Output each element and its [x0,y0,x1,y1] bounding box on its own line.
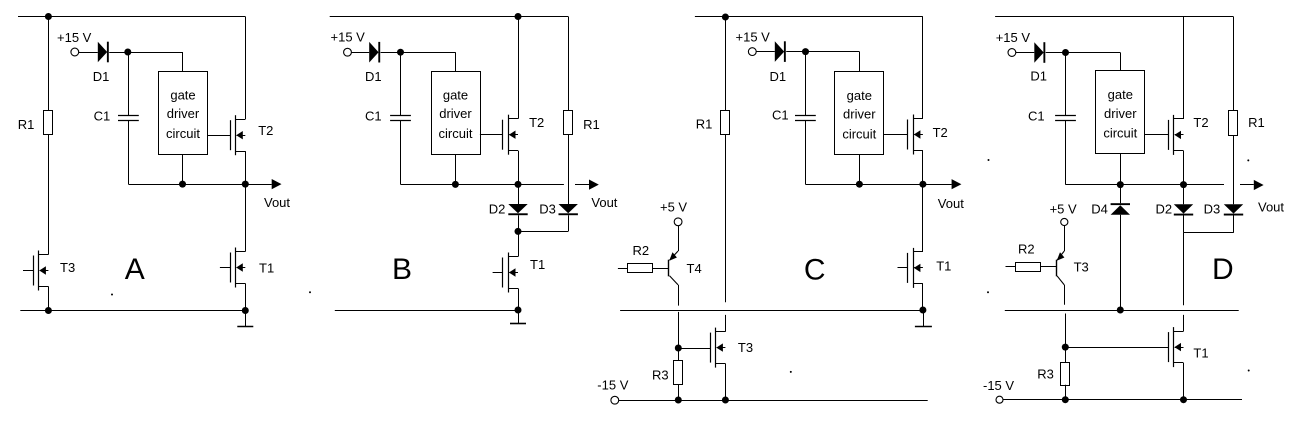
circuit C: bottom driver wire [805,184,923,186]
wire R3 to bottom rail (D) [1065,385,1067,400]
svg-text:+15 V: +15 V [996,30,1031,45]
circuit D: top wire right rail to R1 [1233,17,1235,111]
node D2/D3 join (B) [515,228,522,235]
wire terminal to D1 (D) [1016,52,1035,54]
svg-text:R3: R3 [652,368,669,383]
svg-text:D1: D1 [93,69,110,84]
svg-text:C1: C1 [365,109,382,124]
node R3 / bottom rail (D) [1062,396,1069,403]
wire D2 to junction (B) [518,215,520,231]
node T3 source / bottom rail (C) [722,397,729,404]
svg-text:Vout: Vout [264,195,290,210]
svg-text:driver: driver [439,106,472,121]
wire box to T2 gate (C) [884,134,908,136]
node T3 / bottom rail (A) [45,307,52,314]
node T1 source / middle rail (C) [919,307,926,314]
wire node down to C1 (B) [400,52,402,115]
node T1 source / bottom rail (B) [515,307,522,314]
svg-text:D4: D4 [1091,202,1108,217]
svg-text:+15 V: +15 V [57,30,92,45]
circuit A: node at left rail / top wire [45,13,52,20]
svg-text:C1: C1 [772,108,789,123]
svg-text:+5 V: +5 V [1050,202,1077,217]
svg-text:T1: T1 [1193,346,1208,361]
wire R3 to bottom rail (C) [678,384,680,400]
terminal -15V (C) [611,396,619,404]
box bottom lead (A) [182,154,184,184]
stray speck 1 [111,294,113,296]
svg-text:gate: gate [443,87,468,102]
diode D3 (B) [559,204,578,213]
circuit A: left rail lower segment [48,134,50,254]
node T1 / bottom rail (A) [242,307,249,314]
svg-text:T2: T2 [1193,115,1208,130]
box bottom lead (B) [455,154,457,184]
svg-text:R1: R1 [696,116,713,131]
svg-text:T4: T4 [687,261,702,276]
circuit D: top supply wire [995,16,1233,18]
svg-text:D1: D1 [1030,68,1047,83]
svg-text:driver: driver [843,107,876,122]
resistor R1 (D) [1229,111,1238,136]
node R3 / T1 gate wire (D) [1062,344,1069,351]
svg-text:+15 V: +15 V [736,30,771,45]
wire T3 collector to crossing gap (D) [1064,285,1066,305]
terminal -15V (D) [996,396,1003,403]
wire node down to R3 (C) [678,348,680,360]
wire C1 to driver wire (B) [400,120,402,184]
circuit A: T3 source to bottom rail [48,286,50,310]
capacitor C1 (B) [390,115,411,117]
stray speck 5 [790,371,792,373]
transistor T2 (D) [1173,115,1175,155]
svg-text:T2: T2 [933,125,948,140]
svg-text:T2: T2 [258,123,273,138]
svg-text:gate: gate [170,87,195,102]
transistor T1 (B) [508,253,510,293]
diode D2 (B) [508,204,527,213]
svg-text:D2: D2 [1156,202,1173,217]
output arrow Vout (A) [245,184,271,186]
wire T4 collector resumes to node (C) [678,312,680,348]
circuit B: bottom rail [335,310,518,312]
circuit C: T3 source rail [725,364,727,401]
svg-text:R1: R1 [1248,115,1265,130]
svg-text:D3: D3 [539,201,556,216]
svg-text:T2: T2 [529,115,544,130]
transistor T3 (C) [715,328,717,368]
wire D3 to join (D) [1233,216,1235,233]
box bottom lead (D) [1120,154,1122,185]
diode D1 (B) [369,42,378,63]
circuit B: T1 source rail [518,288,520,310]
svg-text:circuit: circuit [166,126,200,141]
wire node to box top lead (A) [128,52,183,54]
svg-text:R1: R1 [583,117,600,132]
svg-text:C: C [804,254,826,287]
svg-text:T3: T3 [738,340,753,355]
node box lead / driver wire (D) [1117,181,1124,188]
node left rail / top wire (C) [722,14,729,21]
node T2 drain / top wire (B) [515,13,522,20]
circuit C: T2 source rail [922,150,924,184]
svg-text:A: A [125,253,145,286]
circuit D: T2 source rail [1183,151,1185,185]
wire node to box top lead (B) [401,52,456,54]
transistor T1 (A) [235,248,237,288]
svg-text:D: D [1212,253,1234,286]
node T1 source / bottom rail (D) [1180,396,1187,403]
svg-text:T1: T1 [530,257,545,272]
resistor R1 (A) [44,111,53,135]
circuit D: middle output rail [1005,310,1239,312]
terminal +15V (C) [748,48,756,56]
circuit A: T2 drain rail [245,17,247,120]
circuit B: top supply wire [330,16,569,18]
resistor R1 (B) [564,111,573,135]
svg-text:T3: T3 [1074,260,1089,275]
node box lead / driver wire (C) [856,181,863,188]
output arrow Vout (D) [1240,184,1254,186]
svg-text:Vout: Vout [1258,199,1284,214]
svg-text:Vout: Vout [938,196,964,211]
wire resumes to T1 drain (D) [1183,315,1185,331]
circuit B: bottom driver wire [401,184,564,186]
terminal +15V (D) [1008,49,1016,57]
svg-text:T1: T1 [259,261,274,276]
output arrow Vout (B) [575,184,589,186]
wire D1 to node (C) [786,51,805,53]
svg-text:+15 V: +15 V [331,29,366,44]
wire node down to C1 (A) [128,52,130,115]
circuit A: T2 source rail [245,151,247,184]
ground (A) [245,311,247,327]
circuit A: top supply wire [18,16,245,18]
svg-text:C1: C1 [94,109,111,124]
svg-text:driver: driver [167,106,200,121]
node D4 / middle rail (D) [1117,307,1124,314]
wire D1 to node (B) [381,52,401,54]
output arrow Vout (C) [923,184,952,186]
transistor T3 pnp (D) [1056,260,1058,277]
svg-text:-15 V: -15 V [597,377,628,392]
transistor T2 (A) [235,115,237,155]
wire D4 to middle rail (D) [1120,215,1122,310]
resistor R3 (C) [674,361,683,385]
wire R2 to T4 base (C) [653,268,669,270]
ground (C) [923,310,925,326]
wire join down to crossing gap (D) [1183,233,1185,306]
capacitor C1 (C) [795,115,816,117]
wire node to T1 gate (D) [1065,347,1168,349]
circuit C: T2 drain rail [922,17,924,119]
circuit D: bottom supply rail [1003,399,1242,401]
svg-text:+5 V: +5 V [660,200,687,215]
wire box to T2 gate (B) [480,134,503,136]
svg-text:T1: T1 [936,259,951,274]
svg-text:circuit: circuit [1103,126,1137,141]
wire R2 lead (D) [1006,266,1016,268]
wire C1 to driver wire (C) [805,120,807,184]
node after D1 (A) [124,49,131,56]
circuit D: bottom driver wire [1066,184,1225,186]
wire terminal to D1 (A) [79,52,98,54]
svg-text:R2: R2 [633,243,650,258]
wire T4 collector to crossing gap (C) [678,285,680,306]
svg-text:C1: C1 [1028,109,1045,124]
node after D1 (C) [802,48,809,55]
stray speck 6 [1248,370,1250,372]
circuit C: left rail upper segment [725,17,727,110]
circuit B: T2 drain rail [518,17,520,119]
diode D1 (D) [1034,42,1043,63]
svg-text:circuit: circuit [842,126,876,141]
svg-text:R1: R1 [18,117,35,132]
node R3 / bottom rail (C) [675,397,682,404]
wire T3 collector resumes to node (D) [1065,314,1067,348]
capacitor C1 (D) [1055,115,1076,117]
op-amp box: gate driver circuit U1 (D) [1096,71,1145,154]
wire C1 to driver wire (D) [1065,120,1067,184]
diode D1 (A) [98,42,107,63]
stray speck 2 [309,291,311,293]
diode D2 (D) [1174,204,1193,213]
svg-text:D3: D3 [1204,202,1221,217]
circuit A: bottom rail [20,310,245,312]
svg-text:gate: gate [1108,87,1133,102]
transistor T1 (C) [913,248,915,288]
capacitor C1 (A) [118,115,139,117]
diode D4 (D) [1111,203,1130,205]
svg-text:circuit: circuit [439,126,473,141]
wire T2 source node to D2 (B) [518,184,520,204]
wire D3 to junction (B) [568,215,570,231]
svg-text:-15 V: -15 V [983,378,1014,393]
wire R2 to T3 base (D) [1040,266,1056,268]
op-amp box: gate driver circuit U1 (C) [835,72,884,155]
circuit C: middle output rail [620,310,923,312]
wire R2 lead (C) [618,268,628,270]
terminal +15V (A) [71,48,79,56]
wire D1 to node (A) [109,52,128,54]
circuit B: top wire right rail to R1 [568,17,570,111]
wire D2 to join (D) [1183,216,1185,233]
node T2 source / driver wire (A) [242,181,249,188]
circuit B: T2 source rail [518,151,520,185]
svg-text:R3: R3 [1037,367,1054,382]
transistor T3 (A) [38,251,40,291]
svg-text:D1: D1 [770,69,787,84]
resistor R1 (C) [721,111,730,135]
svg-text:T3: T3 [60,260,75,275]
wire R1 to D3 (B) [568,134,570,204]
terminal +15V (B) [344,48,352,56]
circuit C: left rail to crossing gap [725,134,727,302]
svg-text:Vout: Vout [591,195,617,210]
node T2 source / driver wire (D) [1180,181,1187,188]
wire node to box top lead (C) [806,51,860,53]
wire output node down to T1 (C) [922,184,924,252]
resistor R2 (C) [628,264,653,273]
circuit A: T1 source rail [245,283,247,310]
circuit C: left rail resumes to T3 drain [725,315,727,332]
wire node down to C1 (D) [1065,53,1067,116]
transistor T4 pnp (C) [668,260,670,277]
wire R1 to D3 (D) [1233,136,1235,205]
ground (B) [518,310,520,324]
node after D1 (B) [397,49,404,56]
op-amp box: gate driver circuit U1 (B) [432,72,481,155]
transistor T2 (B) [508,115,510,155]
svg-text:R2: R2 [1018,242,1035,257]
wire node down to R3 (D) [1065,347,1067,362]
wire output node down to T1 (A) [245,184,247,252]
node after D1 (D) [1062,49,1069,56]
circuit C: bottom supply rail [619,400,928,402]
svg-text:driver: driver [1104,106,1137,121]
diode D3 (D) [1224,204,1243,213]
node T2 source / driver wire (C) [919,181,926,188]
node R3 / T3 gate (C) [675,345,682,352]
diode D1 (C) [775,41,784,62]
node box lead / driver wire (B) [452,181,459,188]
circuit C: top supply wire [695,16,923,18]
svg-text:B: B [392,253,412,286]
transistor T1 (D) [1173,327,1175,367]
circuit A: left rail upper segment [48,17,50,111]
wire box to T2 gate (A) [208,135,231,137]
terminal +5V (C) [674,218,682,226]
stray speck 3 [987,291,989,293]
svg-text:gate: gate [847,88,872,103]
box bottom lead (C) [859,155,861,185]
svg-text:D2: D2 [489,201,506,216]
wire terminal to D1 (B) [351,52,369,54]
resistor R3 (D) [1061,363,1070,386]
wire terminal to D1 (C) [756,51,775,53]
wire junction down to T1 (B) [518,231,520,256]
circuit C: T1 source rail [922,284,924,310]
wire node down to C1 (C) [805,52,807,116]
circuit D: T1 source rail [1183,363,1185,400]
wire node to T3 gate (C) [678,348,710,350]
circuit D: T2 drain rail [1183,17,1185,119]
circuit A: bottom driver wire [128,184,245,186]
terminal +5V (D) [1061,218,1068,225]
op-amp box: gate driver circuit U1 (A) [159,72,208,155]
resistor R2 (D) [1016,263,1041,272]
wire box node to D4 (D) [1120,185,1122,204]
node T2 source / driver wire (B) [515,181,522,188]
wire C1 to bottom driver wire (A) [128,120,130,184]
stray speck 7 [1247,159,1249,161]
wire node to box top lead (D) [1066,52,1121,54]
node box lead / driver wire (A) [179,181,186,188]
stray speck 4 [988,159,990,161]
wire box to T2 gate (D) [1145,134,1168,136]
wire T2 source node to D2 (D) [1183,185,1185,205]
svg-text:D1: D1 [365,69,382,84]
transistor T2 (C) [913,115,915,155]
wire D1 to node (D) [1046,52,1066,54]
